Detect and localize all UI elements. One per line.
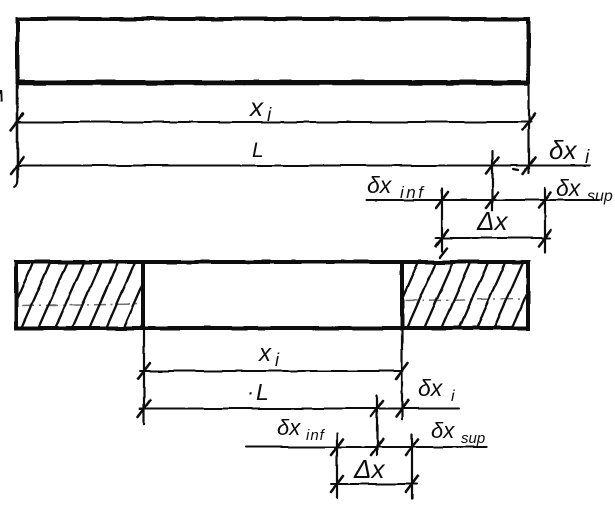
svg-text:inf: inf	[400, 183, 425, 202]
svg-text:inf: inf	[306, 427, 326, 444]
svg-text:·: ·	[247, 381, 254, 404]
svg-text:δx: δx	[549, 135, 577, 165]
svg-text:sup: sup	[461, 430, 485, 447]
svg-text:δx: δx	[418, 375, 444, 401]
svg-text:x: x	[258, 340, 272, 367]
svg-text:Δx: Δx	[476, 206, 508, 236]
svg-text:i: i	[451, 388, 455, 405]
svg-text:sup: sup	[587, 188, 613, 205]
svg-text:L: L	[252, 139, 264, 162]
svg-text:δx: δx	[431, 418, 455, 443]
svg-text:δx: δx	[367, 172, 393, 198]
svg-text:δx: δx	[556, 175, 582, 201]
svg-text:L: L	[256, 379, 269, 405]
svg-text:δx: δx	[277, 415, 301, 440]
svg-text:x: x	[248, 92, 264, 122]
svg-text:Δx: Δx	[353, 454, 385, 484]
